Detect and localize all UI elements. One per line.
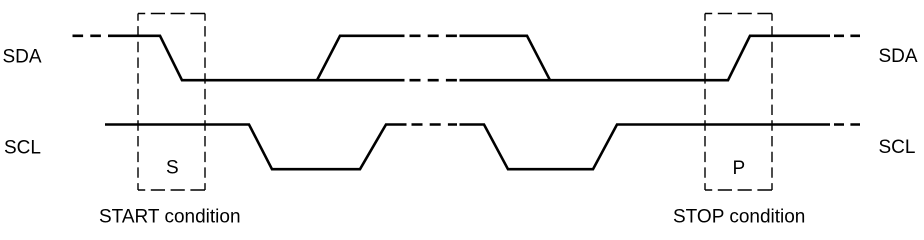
node START condition dashed box — [138, 14, 205, 191]
wire SDA leading dashes (left) — [73, 34, 105, 37]
wire SDA low run to STOP rise + high — [460, 36, 831, 80]
svg-text:SCL: SCL — [4, 138, 41, 159]
svg-text:STOP condition: STOP condition — [673, 207, 805, 226]
svg-text:SCL: SCL — [879, 137, 916, 158]
wire SDA trailing dashes (right) — [834, 34, 860, 37]
wire SDA low middle dashed (time break) — [410, 79, 458, 82]
wire SCL second clock pulse + high run to right — [460, 125, 831, 170]
node STOP condition dashed box — [705, 14, 772, 191]
wire SCL trailing dashes (right) — [834, 123, 860, 126]
svg-text:P: P — [733, 158, 746, 179]
wire SDA data-bit rise branch + high plateau — [317, 36, 405, 80]
svg-text:S: S — [166, 158, 179, 179]
wire SDA high plateau + fall merging to low — [460, 36, 551, 80]
wire SCL left high + first clock low pulse + rise — [105, 125, 407, 170]
wire SCL high middle dashed (time break) — [412, 123, 458, 126]
svg-text:SDA: SDA — [3, 46, 42, 67]
svg-text:SDA: SDA — [879, 46, 918, 67]
svg-text:START condition: START condition — [99, 207, 241, 226]
wire SDA left high + START fall + low run — [108, 36, 405, 80]
wire SDA high middle dashed (time break) — [410, 34, 458, 37]
